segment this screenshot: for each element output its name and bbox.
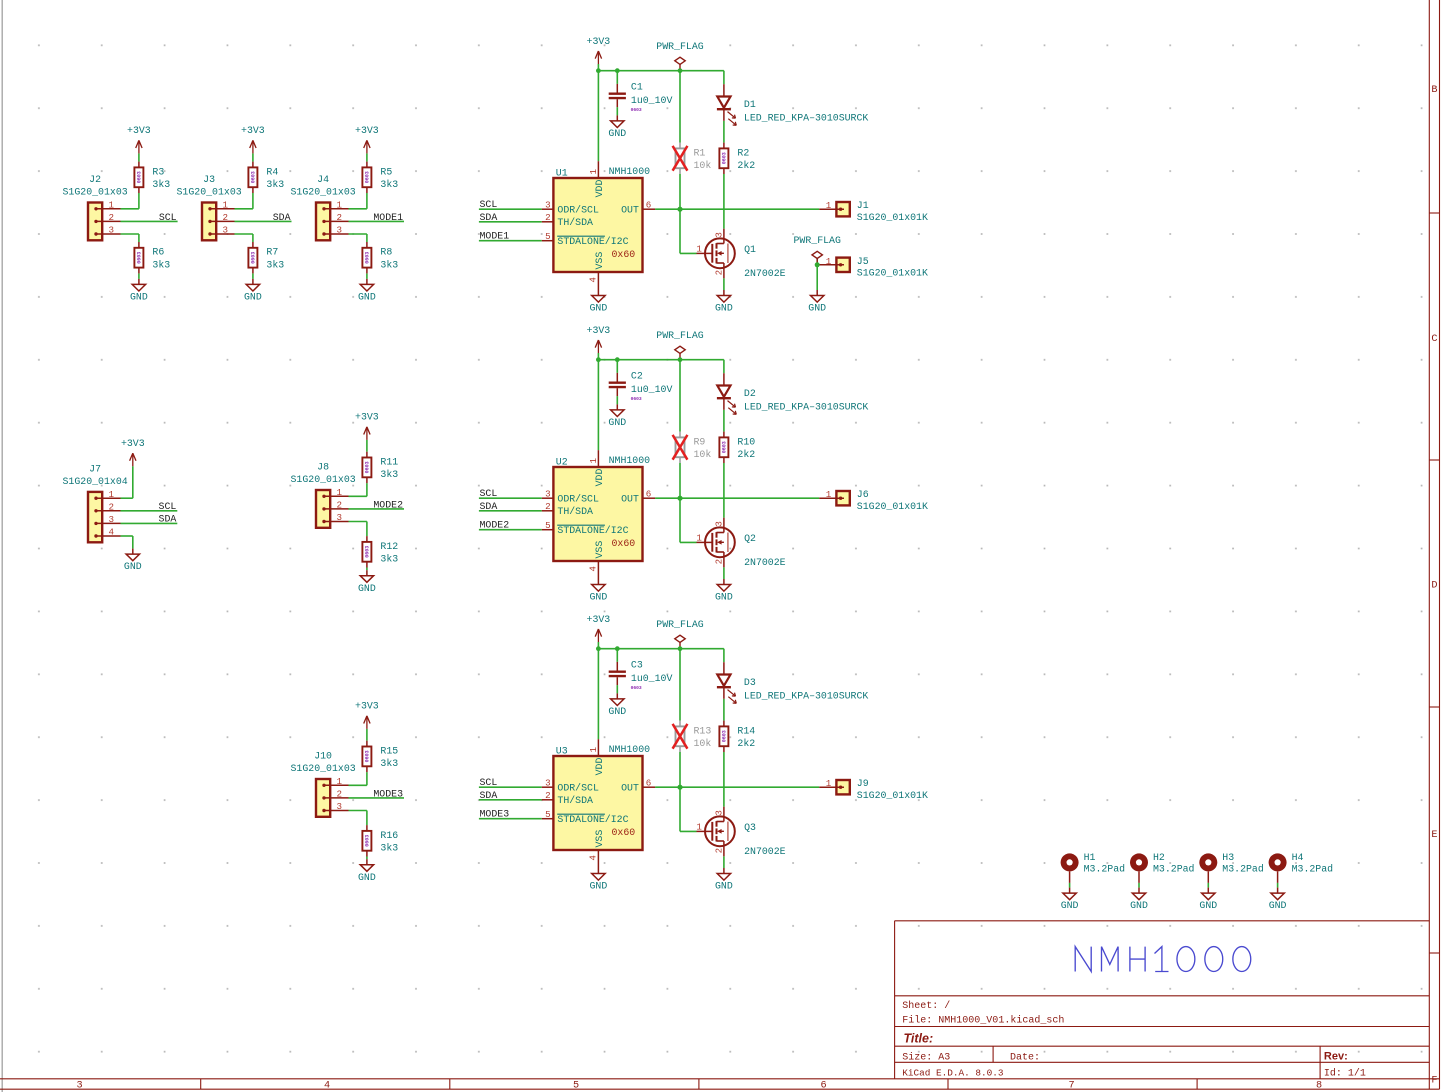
svg-text:GND: GND <box>130 292 148 303</box>
svg-text:3: 3 <box>76 1080 82 1091</box>
svg-text:10k: 10k <box>694 449 712 460</box>
svg-text:GND: GND <box>715 881 733 892</box>
svg-text:+3V3: +3V3 <box>355 701 379 712</box>
svg-text:GND: GND <box>715 303 733 314</box>
svg-text:3: 3 <box>713 810 724 816</box>
svg-text:D: D <box>1431 581 1437 592</box>
svg-text:C1: C1 <box>631 82 643 93</box>
svg-text:OUT: OUT <box>621 782 639 793</box>
svg-text:J9: J9 <box>857 778 869 789</box>
svg-text:6: 6 <box>646 777 652 788</box>
svg-text:S1G20_01x04: S1G20_01x04 <box>63 476 128 487</box>
svg-text:+3V3: +3V3 <box>127 125 151 136</box>
svg-text:2: 2 <box>337 212 343 223</box>
svg-text:U2: U2 <box>556 456 568 467</box>
svg-text:0x60: 0x60 <box>612 827 636 838</box>
svg-text:1: 1 <box>337 487 343 498</box>
svg-text:2N7002E: 2N7002E <box>744 268 786 279</box>
svg-text:1: 1 <box>826 778 832 789</box>
svg-text:GND: GND <box>1269 900 1287 911</box>
svg-text:R9: R9 <box>694 436 706 447</box>
svg-text:+3V3: +3V3 <box>587 614 611 625</box>
svg-text:MODE1: MODE1 <box>373 212 403 223</box>
svg-text:+3V3: +3V3 <box>241 125 265 136</box>
svg-text:C3: C3 <box>631 660 643 671</box>
svg-text:4: 4 <box>588 277 599 283</box>
svg-text:2: 2 <box>545 212 551 223</box>
svg-text:0603: 0603 <box>365 252 371 264</box>
svg-text:GND: GND <box>715 592 733 603</box>
svg-text:+3V3: +3V3 <box>587 36 611 47</box>
svg-text:GND: GND <box>608 128 626 139</box>
svg-text:SDA: SDA <box>480 212 498 223</box>
svg-text:0x60: 0x60 <box>612 249 636 260</box>
svg-text:R4: R4 <box>266 166 278 177</box>
svg-text:1: 1 <box>337 199 343 210</box>
svg-text:+3V3: +3V3 <box>355 125 379 136</box>
svg-text:2: 2 <box>713 270 724 276</box>
svg-text:NMH1000: NMH1000 <box>609 455 651 466</box>
svg-text:3k3: 3k3 <box>380 843 398 854</box>
svg-text:2: 2 <box>109 501 115 512</box>
svg-text:SCL: SCL <box>480 777 498 788</box>
svg-text:+3V3: +3V3 <box>121 438 145 449</box>
svg-text:R5: R5 <box>380 166 392 177</box>
svg-text:1: 1 <box>109 489 115 500</box>
svg-text:R1: R1 <box>694 147 706 158</box>
svg-text:OUT: OUT <box>621 493 639 504</box>
svg-text:2: 2 <box>337 789 343 800</box>
svg-text:6: 6 <box>646 488 652 499</box>
svg-text:File: NMH1000_V01.kicad_sch: File: NMH1000_V01.kicad_sch <box>902 1015 1064 1027</box>
svg-text:S1G20_01x03: S1G20_01x03 <box>63 187 128 198</box>
svg-text:0603: 0603 <box>365 171 371 183</box>
svg-text:S1G20_01x03: S1G20_01x03 <box>291 763 356 774</box>
svg-text:3: 3 <box>713 521 724 527</box>
svg-text:LED_RED_KPA–3010SURCK: LED_RED_KPA–3010SURCK <box>744 691 869 702</box>
svg-text:ODR/SCL: ODR/SCL <box>557 493 599 504</box>
svg-text:2: 2 <box>109 212 115 223</box>
svg-text:MODE2: MODE2 <box>480 520 510 531</box>
svg-text:4: 4 <box>324 1080 330 1091</box>
svg-text:GND: GND <box>808 303 826 314</box>
svg-text:SDA: SDA <box>480 501 498 512</box>
svg-text:3k3: 3k3 <box>152 179 170 190</box>
svg-text:J10: J10 <box>314 751 332 762</box>
svg-text:LED_RED_KPA–3010SURCK: LED_RED_KPA–3010SURCK <box>744 402 869 413</box>
svg-text:PWR_FLAG: PWR_FLAG <box>656 619 703 630</box>
svg-text:1: 1 <box>337 776 343 787</box>
svg-text:STDALONE/I2C: STDALONE/I2C <box>557 525 628 536</box>
svg-text:PWR_FLAG: PWR_FLAG <box>793 235 840 246</box>
svg-text:F: F <box>1431 1076 1437 1087</box>
svg-text:TH/SDA: TH/SDA <box>557 795 593 806</box>
svg-text:+3V3: +3V3 <box>355 412 379 423</box>
svg-text:5: 5 <box>545 520 551 531</box>
svg-text:C: C <box>1431 334 1437 345</box>
svg-text:GND: GND <box>358 872 376 883</box>
svg-text:3: 3 <box>337 801 343 812</box>
svg-text:S1G20_01x01K: S1G20_01x01K <box>857 212 928 223</box>
svg-text:R8: R8 <box>380 247 392 258</box>
svg-text:MODE3: MODE3 <box>480 809 510 820</box>
svg-text:NMH1000: NMH1000 <box>609 166 651 177</box>
svg-text:2: 2 <box>713 559 724 565</box>
svg-text:3k3: 3k3 <box>266 179 284 190</box>
svg-text:7: 7 <box>1068 1080 1074 1091</box>
svg-text:U1: U1 <box>556 167 568 178</box>
svg-text:1: 1 <box>588 747 599 753</box>
svg-text:Q2: Q2 <box>744 533 756 544</box>
svg-text:3: 3 <box>109 225 115 236</box>
svg-text:10k: 10k <box>694 160 712 171</box>
svg-text:1: 1 <box>109 199 115 210</box>
svg-text:D2: D2 <box>744 388 756 399</box>
svg-text:Rev:: Rev: <box>1324 1050 1348 1062</box>
svg-text:1u0_10V: 1u0_10V <box>631 673 673 684</box>
svg-text:GND: GND <box>1061 900 1079 911</box>
svg-text:NMH1000: NMH1000 <box>609 744 651 755</box>
svg-text:2N7002E: 2N7002E <box>744 846 786 857</box>
svg-text:SDA: SDA <box>480 790 498 801</box>
svg-text:3: 3 <box>545 488 551 499</box>
svg-text:VDD: VDD <box>594 180 605 198</box>
svg-text:J7: J7 <box>89 464 101 475</box>
svg-text:5: 5 <box>545 231 551 242</box>
svg-text:1: 1 <box>588 458 599 464</box>
svg-text:GND: GND <box>358 292 376 303</box>
svg-text:0603: 0603 <box>722 730 728 742</box>
svg-text:GND: GND <box>124 561 142 572</box>
svg-text:STDALONE/I2C: STDALONE/I2C <box>557 236 628 247</box>
svg-text:R7: R7 <box>266 247 278 258</box>
svg-text:GND: GND <box>608 417 626 428</box>
svg-text:0x60: 0x60 <box>612 538 636 549</box>
svg-text:C2: C2 <box>631 371 643 382</box>
svg-text:LED_RED_KPA–3010SURCK: LED_RED_KPA–3010SURCK <box>744 113 869 124</box>
svg-text:KiCad E.D.A. 8.0.3: KiCad E.D.A. 8.0.3 <box>902 1068 1004 1079</box>
svg-text:M3.2Pad: M3.2Pad <box>1153 864 1195 875</box>
svg-text:GND: GND <box>590 592 608 603</box>
svg-text:3k3: 3k3 <box>380 554 398 565</box>
svg-text:GND: GND <box>590 303 608 314</box>
svg-text:R13: R13 <box>694 725 712 736</box>
svg-text:2N7002E: 2N7002E <box>744 557 786 568</box>
svg-text:R2: R2 <box>737 147 749 158</box>
svg-text:S1G20_01x01K: S1G20_01x01K <box>857 501 928 512</box>
svg-text:1: 1 <box>826 489 832 500</box>
svg-text:6: 6 <box>820 1080 826 1091</box>
svg-text:0603: 0603 <box>365 750 371 762</box>
svg-text:GND: GND <box>608 706 626 717</box>
svg-text:0603: 0603 <box>631 685 642 691</box>
svg-text:J4: J4 <box>317 174 329 185</box>
svg-text:8: 8 <box>1316 1080 1322 1091</box>
svg-text:0603: 0603 <box>137 171 143 183</box>
svg-text:R6: R6 <box>152 247 164 258</box>
svg-text:5: 5 <box>573 1080 579 1091</box>
svg-text:D3: D3 <box>744 677 756 688</box>
svg-text:SDA: SDA <box>159 513 177 524</box>
svg-text:1: 1 <box>588 169 599 175</box>
svg-text:GND: GND <box>1199 900 1217 911</box>
svg-text:3: 3 <box>713 232 724 238</box>
svg-text:3: 3 <box>109 514 115 525</box>
svg-text:3: 3 <box>545 199 551 210</box>
svg-text:2k2: 2k2 <box>737 160 755 171</box>
svg-text:U3: U3 <box>556 745 568 756</box>
svg-text:2: 2 <box>337 500 343 511</box>
svg-text:VDD: VDD <box>594 469 605 487</box>
svg-text:TH/SDA: TH/SDA <box>557 506 593 517</box>
svg-text:Date:: Date: <box>1010 1052 1040 1063</box>
svg-text:0603: 0603 <box>365 835 371 847</box>
svg-text:D1: D1 <box>744 99 756 110</box>
svg-text:MODE1: MODE1 <box>480 231 510 242</box>
svg-text:STDALONE/I2C: STDALONE/I2C <box>557 814 628 825</box>
svg-text:2k2: 2k2 <box>737 449 755 460</box>
svg-text:SDA: SDA <box>273 212 291 223</box>
svg-text:3: 3 <box>223 225 229 236</box>
svg-text:+3V3: +3V3 <box>587 325 611 336</box>
svg-text:GND: GND <box>1130 900 1148 911</box>
svg-text:Size: A3: Size: A3 <box>902 1051 950 1063</box>
svg-text:ODR/SCL: ODR/SCL <box>557 204 599 215</box>
svg-text:1: 1 <box>696 243 702 254</box>
svg-text:E: E <box>1431 830 1437 841</box>
svg-text:M3.2Pad: M3.2Pad <box>1084 864 1126 875</box>
svg-text:3: 3 <box>545 777 551 788</box>
svg-text:4: 4 <box>588 566 599 572</box>
svg-text:ODR/SCL: ODR/SCL <box>557 782 599 793</box>
svg-text:H2: H2 <box>1153 852 1165 863</box>
svg-text:4: 4 <box>588 855 599 861</box>
svg-text:1u0_10V: 1u0_10V <box>631 95 673 106</box>
svg-text:H4: H4 <box>1292 852 1304 863</box>
svg-text:OUT: OUT <box>621 204 639 215</box>
svg-text:0603: 0603 <box>251 252 257 264</box>
svg-text:Title:: Title: <box>904 1032 934 1046</box>
svg-text:J5: J5 <box>857 256 869 267</box>
svg-text:Q3: Q3 <box>744 822 756 833</box>
svg-text:2: 2 <box>545 790 551 801</box>
svg-text:3k3: 3k3 <box>380 758 398 769</box>
svg-text:R14: R14 <box>737 725 755 736</box>
svg-text:3k3: 3k3 <box>152 259 170 270</box>
svg-text:0603: 0603 <box>251 171 257 183</box>
svg-text:0603: 0603 <box>722 441 728 453</box>
svg-text:2: 2 <box>713 848 724 854</box>
svg-text:1u0_10V: 1u0_10V <box>631 384 673 395</box>
svg-text:3k3: 3k3 <box>380 469 398 480</box>
svg-text:S1G20_01x03: S1G20_01x03 <box>291 474 356 485</box>
svg-text:2: 2 <box>223 212 229 223</box>
svg-text:3k3: 3k3 <box>380 259 398 270</box>
svg-text:J8: J8 <box>317 462 329 473</box>
svg-text:1: 1 <box>826 200 832 211</box>
svg-text:4: 4 <box>109 527 115 538</box>
svg-text:S1G20_01x01K: S1G20_01x01K <box>857 790 928 801</box>
svg-text:1: 1 <box>696 532 702 543</box>
svg-text:R11: R11 <box>380 456 398 467</box>
svg-text:5: 5 <box>545 809 551 820</box>
svg-text:0603: 0603 <box>137 252 143 264</box>
svg-text:1: 1 <box>223 199 229 210</box>
svg-text:Q1: Q1 <box>744 244 756 255</box>
svg-text:3: 3 <box>337 225 343 236</box>
svg-text:J3: J3 <box>203 174 215 185</box>
svg-text:R15: R15 <box>380 745 398 756</box>
svg-text:2: 2 <box>545 501 551 512</box>
svg-text:S1G20_01x03: S1G20_01x03 <box>291 187 356 198</box>
svg-text:S1G20_01x01K: S1G20_01x01K <box>857 268 928 279</box>
svg-text:R3: R3 <box>152 166 164 177</box>
svg-text:3k3: 3k3 <box>266 259 284 270</box>
svg-text:J6: J6 <box>857 489 869 500</box>
svg-text:VSS: VSS <box>594 252 605 270</box>
svg-text:6: 6 <box>646 199 652 210</box>
svg-text:SCL: SCL <box>159 501 177 512</box>
svg-text:H3: H3 <box>1222 852 1234 863</box>
svg-text:R16: R16 <box>380 830 398 841</box>
svg-text:1: 1 <box>696 821 702 832</box>
svg-text:PWR_FLAG: PWR_FLAG <box>656 41 703 52</box>
svg-text:MODE3: MODE3 <box>373 789 403 800</box>
svg-text:Id: 1/1: Id: 1/1 <box>1324 1068 1366 1080</box>
svg-text:J1: J1 <box>857 200 869 211</box>
svg-text:GND: GND <box>358 583 376 594</box>
svg-text:S1G20_01x03: S1G20_01x03 <box>177 187 242 198</box>
svg-text:1: 1 <box>826 256 832 267</box>
svg-text:SCL: SCL <box>480 488 498 499</box>
svg-text:0603: 0603 <box>631 107 642 113</box>
svg-text:MODE2: MODE2 <box>373 500 403 511</box>
svg-text:TH/SDA: TH/SDA <box>557 217 593 228</box>
svg-text:Sheet: /: Sheet: / <box>902 1000 950 1012</box>
svg-text:SCL: SCL <box>480 199 498 210</box>
svg-text:VDD: VDD <box>594 758 605 776</box>
svg-text:H1: H1 <box>1084 852 1096 863</box>
svg-text:0603: 0603 <box>722 152 728 164</box>
svg-text:R10: R10 <box>737 436 755 447</box>
svg-text:J2: J2 <box>89 174 101 185</box>
svg-text:10k: 10k <box>694 738 712 749</box>
svg-text:M3.2Pad: M3.2Pad <box>1222 864 1264 875</box>
svg-text:GND: GND <box>244 292 262 303</box>
svg-text:M3.2Pad: M3.2Pad <box>1292 864 1334 875</box>
svg-text:2k2: 2k2 <box>737 738 755 749</box>
svg-text:3: 3 <box>337 512 343 523</box>
svg-text:0603: 0603 <box>631 396 642 402</box>
svg-text:R12: R12 <box>380 541 398 552</box>
svg-text:B: B <box>1431 85 1437 96</box>
svg-text:GND: GND <box>590 881 608 892</box>
svg-text:0603: 0603 <box>365 461 371 473</box>
svg-text:VSS: VSS <box>594 830 605 848</box>
svg-text:SCL: SCL <box>159 212 177 223</box>
svg-text:VSS: VSS <box>594 541 605 559</box>
svg-text:3k3: 3k3 <box>380 179 398 190</box>
svg-text:PWR_FLAG: PWR_FLAG <box>656 330 703 341</box>
svg-text:0603: 0603 <box>365 546 371 558</box>
